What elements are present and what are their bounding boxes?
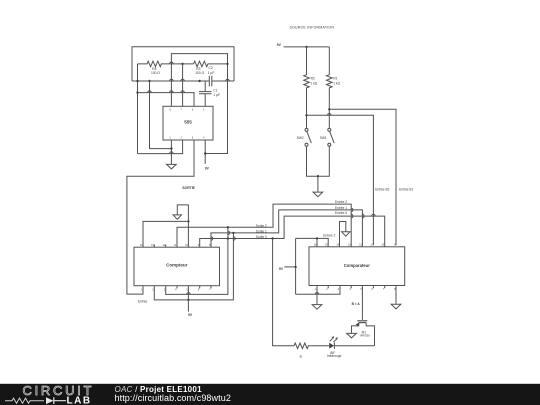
wire outer feedback loop: [132, 47, 234, 81]
svg-text:IRF530: IRF530: [360, 333, 370, 337]
ground comparateur left: [312, 305, 322, 310]
svg-text:100 Ω: 100 Ω: [195, 71, 204, 75]
svg-text:SW2: SW2: [297, 136, 304, 140]
ground M1 source: [347, 333, 357, 338]
svg-text:Sortie 1: Sortie 1: [256, 229, 267, 233]
transistor M1 IRF530: [357, 320, 367, 322]
wire pin8 to ground right: [395, 286, 397, 304]
resistor R2: [304, 47, 310, 128]
wire hop rail x227.5: [226, 79, 230, 81]
wire 9V stem compteur: [187, 286, 189, 312]
svg-text:SORTIE: SORTIE: [182, 186, 195, 190]
svg-text:Compteur: Compteur: [166, 263, 187, 268]
node dot H3 V1: [227, 237, 229, 239]
node dot pin1 junction: [170, 147, 172, 149]
diode LED INF: [329, 343, 334, 349]
wire hop S1 x211 over H3: [211, 237, 213, 241]
node dot x137.5 rail: [136, 80, 138, 82]
wire 555 pin2 row: [138, 140, 183, 154]
svg-text:R2: R2: [311, 76, 315, 80]
svg-text:C2: C2: [209, 66, 213, 70]
svg-text:1 kΩ: 1 kΩ: [333, 81, 340, 85]
op-amp U2 Compteur box: [134, 247, 220, 286]
wire hop S2 x351.2 over E1: [351, 208, 353, 212]
svg-text:Entrée 2: Entrée 2: [335, 200, 347, 204]
wire compteur bottom stubs: [177, 286, 211, 289]
wire compteur top stubs: [154, 244, 165, 247]
wire hop V1 over H2: [228, 231, 230, 235]
wire 555 pin1 to ground: [170, 140, 172, 164]
wire clock hook arrow: [177, 205, 188, 247]
node dot 9V stem: [187, 299, 189, 301]
svg-text:Entrée 0: Entrée 0: [335, 211, 347, 215]
ground comparateur right: [391, 304, 401, 309]
svg-text:1 µF: 1 µF: [208, 71, 215, 75]
wire pin1 to ground: [316, 286, 318, 305]
resistor R3: [194, 61, 228, 67]
wire hop S1 x362.4 over E0: [362, 214, 364, 218]
wire threshold row y92.6: [138, 93, 195, 107]
wire Sortie 0 net H3 to B-row pin: [200, 216, 385, 247]
wire hop rail x171.4: [170, 79, 174, 81]
svg-text:100 Ω: 100 Ω: [151, 71, 160, 75]
svg-text:9V: 9V: [277, 43, 282, 47]
svg-text:9V: 9V: [188, 313, 193, 317]
op-amp U3 Comparateur box: [309, 247, 405, 286]
wire hook entree2 arrow: [340, 222, 346, 247]
wire bottom row to pin: [296, 286, 340, 295]
wire hop rail x182.6: [181, 79, 185, 81]
svg-text:LAB: LAB: [67, 396, 92, 405]
wire hop row x149.5: [148, 91, 152, 93]
node dot R4-R3/pin7: [181, 63, 183, 65]
wire hop S0 x373.4: [372, 214, 376, 216]
wire Sortie 2 net H1 to Entree 2 pin: [177, 204, 351, 247]
svg-text:C1: C1: [213, 88, 217, 92]
svg-text:Entrée 2: Entrée 2: [323, 234, 335, 238]
svg-text:Entrée B2: Entrée B2: [375, 187, 389, 191]
wire hop lead x171.4: [170, 62, 174, 64]
svg-text:555: 555: [184, 120, 192, 125]
wire V1 return: [166, 227, 228, 294]
node dot pin4: [204, 152, 206, 154]
wire x149.5 to pin1: [150, 81, 172, 149]
node dot B1 tap: [328, 108, 330, 110]
wire switches to ground: [307, 146, 330, 191]
svg-text:1 kΩ: 1 kΩ: [310, 81, 317, 85]
node dot B2 tap: [305, 114, 307, 116]
switch SW2: [305, 128, 308, 131]
node dot x137.5 row: [136, 91, 138, 93]
node dot H1 V1: [227, 226, 229, 228]
svg-text:SOURCE INFORMATION: SOURCE INFORMATION: [290, 26, 335, 30]
resistor R: [294, 343, 329, 349]
svg-text:Entrée B1: Entrée B1: [399, 187, 413, 191]
svg-text:SW1: SW1: [320, 136, 327, 140]
svg-text:9V: 9V: [279, 267, 284, 271]
wire hop row x182.6: [181, 91, 185, 93]
node dot R3/9V: [226, 63, 228, 65]
wire comparateur bottom stubs: [328, 286, 385, 289]
wire top pin1 link: [143, 221, 188, 247]
svg-text:R1: R1: [333, 76, 337, 80]
ground switches: [313, 192, 323, 197]
wire hop pin2row x171.4: [170, 152, 174, 154]
svg-text:1 µF: 1 µF: [213, 93, 220, 97]
op-amp U1 555 box: [163, 106, 213, 140]
wire hop V2 over H3: [233, 237, 235, 241]
node dot Entree2 pin16: [316, 237, 318, 239]
wire hop B2 x329.3: [328, 113, 332, 115]
wire Sortie 1 net H2 to Entree 1 pin: [211, 210, 362, 247]
node dot switch ground: [317, 175, 319, 177]
wire Entree B1: [329, 109, 396, 245]
svg-text:Entrée 1: Entrée 1: [335, 206, 347, 210]
wire trigger left vertical x137.5: [137, 64, 139, 154]
wire hop row x171.4: [170, 91, 174, 93]
wire 9V vertical comparateur: [295, 238, 297, 294]
svg-text:Infrarouge: Infrarouge: [327, 354, 342, 358]
wire B lt A gate: [361, 286, 363, 320]
LED arrows: [330, 338, 337, 342]
wire 9V lead comparateur: [284, 266, 295, 268]
arrow clock hook: [173, 215, 181, 219]
svg-text:Sortie 0: Sortie 0: [256, 235, 267, 239]
svg-text:9V: 9V: [205, 167, 210, 171]
wire pin7 vertical: [182, 64, 184, 106]
wire inner loop pin8 to 9V: [171, 54, 227, 154]
wire hop V1row x188.4: [187, 293, 191, 295]
wire 555 pin4 9V stub: [205, 140, 227, 164]
svg-text:http://circuitlab.com/c98wtu2: http://circuitlab.com/c98wtu2: [115, 393, 231, 403]
wire V2 return: [154, 233, 233, 300]
node dot H2 V2: [232, 232, 234, 234]
svg-text:B < A: B < A: [352, 302, 361, 306]
arrow hook entree2: [342, 232, 350, 236]
svg-text:Comparateur: Comparateur: [344, 263, 370, 268]
ground 555: [167, 164, 177, 169]
wire hop S2 x351.2 over E0: [351, 214, 353, 218]
resistor R1: [327, 47, 333, 128]
node dot 9V feed: [305, 46, 307, 48]
svg-text:Entrée: Entrée: [138, 299, 148, 303]
wire LED branch vertical: [273, 239, 294, 346]
node dot rail x149.5: [148, 80, 150, 82]
node dot rail x199.6: [198, 80, 200, 82]
svg-text:Sortie 2: Sortie 2: [256, 224, 267, 228]
capacitor C2: [209, 76, 212, 87]
node dot 9V comparateur: [294, 266, 296, 268]
switch SW1: [328, 128, 331, 131]
wire Entree B2: [307, 115, 374, 245]
wire 9V feed: [284, 46, 330, 48]
node dot hook junction: [187, 220, 189, 222]
logo wire glyph: [5, 398, 44, 403]
resistor R4: [138, 61, 194, 67]
node dot H3 LED branch: [271, 237, 273, 239]
wire threshold rail y81: [132, 80, 234, 82]
capacitor C1: [199, 81, 212, 106]
wire Entree2 9V line: [296, 238, 329, 246]
wire 555 pin3 SORTIE to Compteur: [127, 140, 194, 294]
wire hop row x317: [315, 293, 319, 295]
